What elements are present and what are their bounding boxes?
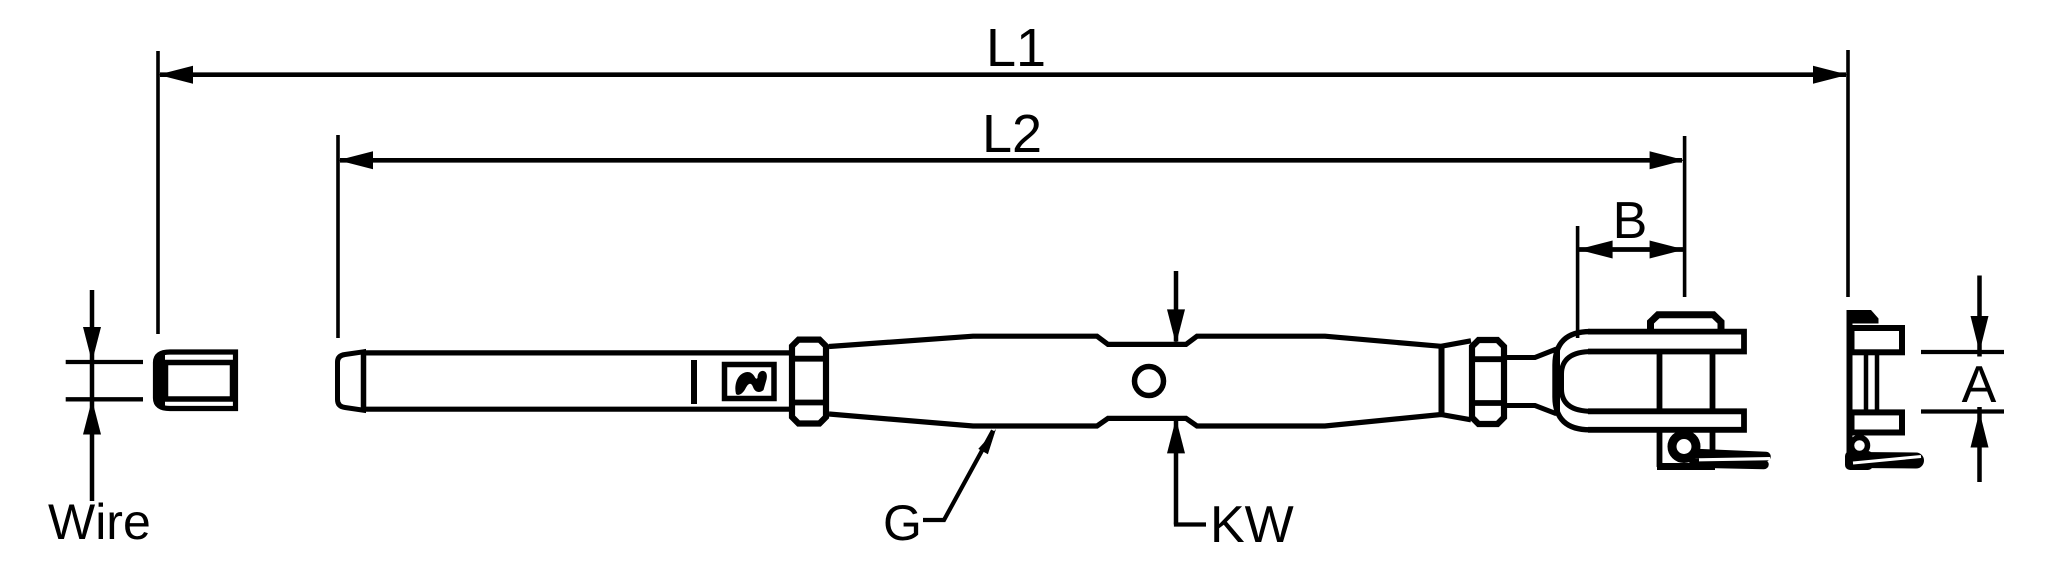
- svg-text:Wire: Wire: [48, 494, 151, 550]
- svg-text:B: B: [1613, 192, 1648, 250]
- dimension B extension line left: [1576, 226, 1580, 338]
- dimension A upper arrow: [1977, 276, 1982, 357]
- barrel center hole: [1135, 367, 1164, 396]
- svg-text:A: A: [1962, 356, 1997, 414]
- G leader arrowhead: [978, 429, 996, 454]
- dimension KW leader foot: [1174, 522, 1206, 526]
- dimension L2 arrow right: [1650, 151, 1685, 169]
- dimension L1 extension line right: [1846, 50, 1850, 297]
- hex nut left facet line lower: [789, 400, 829, 406]
- wire piece inner face: [166, 363, 233, 400]
- dimension L2 arrow left: [338, 151, 373, 169]
- side view web left edge: [1864, 352, 1869, 412]
- turnbuckle barrel bottom outline: [829, 414, 1471, 426]
- stud terminal cap edge: [361, 352, 367, 410]
- wire piece left end thick edge: [157, 354, 165, 408]
- fork neck top edge: [1505, 349, 1557, 358]
- svg-text:L2: L2: [982, 104, 1042, 164]
- side view bottom flange: [1852, 412, 1903, 432]
- turnbuckle barrel top outline: [829, 336, 1471, 346]
- fork top plate: [1588, 332, 1744, 352]
- side view cotter ring: [1852, 438, 1868, 454]
- dimension A lower arrow: [1977, 407, 1982, 482]
- logo box: [725, 365, 775, 399]
- dimension L2 extension line right: [1683, 136, 1687, 297]
- side view left silhouette edge: [1847, 310, 1853, 469]
- hex nut left facet line upper: [789, 356, 829, 362]
- clevis pin lower tab bottom edge: [1657, 463, 1715, 470]
- fork head outer cap: [1555, 332, 1590, 430]
- logo wave glyph: [735, 371, 767, 395]
- svg-text:G: G: [883, 495, 922, 551]
- side view top flange: [1852, 328, 1903, 352]
- cotter ring: [1672, 435, 1696, 459]
- side view boss: [1847, 310, 1879, 324]
- dimension A tick bottom: [1921, 409, 2004, 413]
- wire piece outer body: [156, 352, 236, 409]
- barrel end edge: [1439, 345, 1445, 414]
- clevis pin right edge: [1710, 352, 1716, 412]
- dimension L1 line: [160, 72, 1846, 77]
- fork neck end edge: [1555, 349, 1560, 414]
- wire dimension lower arrow: [83, 400, 101, 435]
- side view web right edge: [1875, 352, 1880, 412]
- fork head inner cap: [1562, 352, 1593, 412]
- hex nut left body: [792, 340, 826, 424]
- dimension B arrow right: [1650, 241, 1685, 259]
- cotter pin prongs: [1696, 454, 1766, 457]
- fork neck bottom edge: [1505, 406, 1557, 414]
- hex nut right facet line upper: [1469, 356, 1507, 362]
- wire dimension tick bottom: [66, 397, 143, 401]
- hex nut right facet line lower: [1469, 400, 1507, 406]
- clevis pin lower tab right edge: [1710, 430, 1716, 467]
- clevis pin boss: [1651, 315, 1722, 332]
- dimension L1 arrow left: [158, 66, 193, 84]
- hex nut right body: [1472, 340, 1504, 424]
- dimension L1 extension line left: [156, 51, 160, 334]
- dimension B line: [1579, 247, 1683, 252]
- stud terminal left cap: [338, 352, 364, 410]
- svg-text:L1: L1: [986, 18, 1046, 78]
- stud terminal body top edge: [364, 350, 794, 355]
- clevis pin left edge: [1657, 352, 1663, 412]
- fork bottom plate: [1588, 411, 1744, 430]
- dimension L2 extension line left: [336, 135, 340, 338]
- G leader line: [923, 431, 993, 521]
- dimension L2 line: [340, 158, 1682, 163]
- dimension KW upper arrow: [1174, 271, 1179, 342]
- cotter pin split gap: [1699, 459, 1770, 460]
- dimension L1 arrow right: [1813, 66, 1848, 84]
- svg-text:KW: KW: [1210, 496, 1294, 554]
- dimension A tick top: [1921, 350, 2004, 354]
- wire dimension tick top: [66, 360, 143, 364]
- side view cotter pin body: [1845, 451, 1873, 470]
- dimension KW lower arrow: [1174, 421, 1179, 525]
- stud terminal body bottom edge: [364, 407, 794, 412]
- wire dimension upper arrow: [90, 290, 95, 501]
- side view cotter pin split: [1853, 457, 1921, 464]
- dimension B arrow left: [1578, 241, 1613, 259]
- swage mark tick: [691, 360, 697, 404]
- clevis pin lower tab left edge: [1657, 430, 1663, 467]
